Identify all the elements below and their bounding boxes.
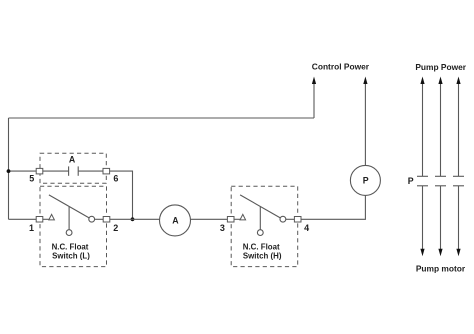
svg-text:A: A [69, 155, 76, 165]
terminal 5 [36, 168, 43, 174]
wire contact A right lead [78, 170, 103, 172]
switch L seal-in triangle [49, 214, 55, 220]
svg-text:Pump motor: Pump motor [416, 263, 466, 273]
svg-text:P: P [408, 176, 414, 186]
float switch H enclosure (dashed) [231, 186, 298, 266]
arrow phase 2 up [438, 77, 442, 85]
switch H seal-in triangle [240, 214, 246, 220]
phase line 3 upper [458, 83, 460, 176]
node junction left rail [7, 169, 11, 173]
phase line 1 lower [422, 186, 424, 250]
contactor coil P [350, 165, 380, 195]
switch L lever [49, 195, 89, 218]
switch H lever [240, 195, 280, 218]
arrow phase 3 up [456, 77, 460, 85]
wire switch H left lead [234, 218, 240, 220]
relay coil A [160, 205, 191, 236]
svg-text:5: 5 [29, 173, 34, 183]
relay contact A enclosure (dashed) [40, 153, 106, 183]
phase line 3 lower [458, 186, 460, 250]
wire contact A left lead [43, 170, 69, 172]
wire coil P to control power [364, 83, 366, 165]
contactor P contact 2 upper bar [435, 175, 446, 177]
arrow control power right [363, 77, 367, 85]
svg-text:N.C. Float: N.C. Float [52, 242, 89, 251]
svg-text:4: 4 [304, 223, 309, 233]
contact A right bar [77, 166, 79, 175]
wire switch H right lead [286, 218, 295, 220]
wire control power left riser [313, 83, 315, 118]
wire left vertical rail [8, 118, 10, 219]
contactor P contact 1 lower bar [417, 185, 428, 187]
terminal 4 [294, 217, 301, 223]
switch H float circle [257, 230, 263, 236]
svg-text:Switch (L): Switch (L) [52, 252, 90, 261]
arrow phase 1 up [420, 77, 424, 85]
wire coil A to terminal 3 [191, 218, 228, 220]
terminal 2 [103, 217, 110, 223]
svg-text:P: P [363, 176, 369, 186]
wire terminal 2 to coil A [110, 218, 160, 220]
switch H float rod [259, 207, 261, 230]
wire branch to terminal 5 [9, 170, 37, 172]
svg-text:6: 6 [113, 174, 118, 184]
terminal 1 [36, 217, 43, 223]
contact A left bar [68, 166, 70, 175]
svg-text:3: 3 [220, 223, 225, 233]
switch H pivot contact circle [280, 216, 286, 222]
switch L float rod [68, 207, 70, 230]
wire terminal 4 to coil P [301, 195, 365, 219]
svg-text:N.C. Float: N.C. Float [243, 242, 280, 251]
wire switch L left lead [43, 218, 49, 220]
wire to terminal 1 [9, 218, 37, 220]
switch L pivot contact circle [89, 216, 95, 222]
phase line 1 upper [422, 83, 424, 176]
svg-text:Control Power: Control Power [312, 62, 370, 72]
terminal 6 [103, 168, 110, 174]
arrow phase 2 down [438, 249, 442, 257]
float switch L enclosure (dashed) [40, 186, 107, 266]
wire terminal 6 to junction [110, 171, 133, 219]
wire top rail horizontal [9, 117, 315, 119]
svg-text:A: A [172, 216, 179, 226]
arrow control power left [312, 77, 316, 85]
phase line 2 lower [440, 186, 442, 250]
wire switch L right lead [95, 218, 104, 220]
switch L float circle [66, 230, 72, 236]
contactor P contact 1 upper bar [417, 175, 428, 177]
arrow phase 1 down [420, 249, 424, 257]
contactor P contact 3 upper bar [453, 175, 464, 177]
terminal 3 [227, 217, 234, 223]
contactor P contact 3 lower bar [453, 185, 464, 187]
phase line 2 upper [440, 83, 442, 176]
contactor P contact 2 lower bar [435, 185, 446, 187]
svg-text:Pump Power: Pump Power [415, 62, 466, 72]
svg-text:Switch (H): Switch (H) [243, 252, 282, 261]
svg-text:2: 2 [113, 223, 118, 233]
node junction at coil branch [131, 217, 135, 221]
svg-text:1: 1 [29, 223, 34, 233]
arrow phase 3 down [456, 249, 460, 257]
